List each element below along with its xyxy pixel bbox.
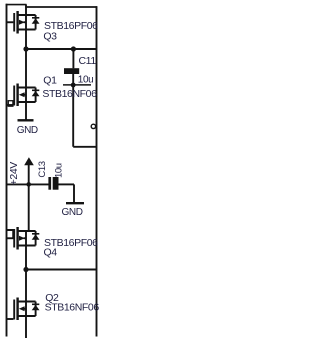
wire GND stem right (73, 184, 75, 203)
svg-text:GND: GND (17, 125, 38, 136)
svg-text:Q4: Q4 (44, 247, 58, 259)
transistor Q4 (7, 227, 40, 250)
wire right vertical (96, 6, 98, 336)
ground symbol right bar (66, 202, 84, 204)
Q1 gate connection box (8, 101, 13, 107)
wire C11 to right vertical horizontal (73, 146, 96, 148)
wire C13 right lead (59, 183, 75, 185)
junction node at Q3 output (23, 46, 28, 51)
power port +24V arrow (24, 157, 34, 232)
svg-text:+24V: +24V (8, 162, 20, 186)
Q4 gate connection jog wire (7, 230, 13, 239)
wire C13 left lead (7, 183, 49, 185)
junction node at bottom bridge output (23, 267, 28, 272)
wire output node horizontal (26, 48, 97, 50)
capacitor C13 right plate (53, 177, 59, 190)
svg-text:STB16NF06: STB16NF06 (42, 88, 97, 100)
wire C11 bottom lead (72, 74, 74, 147)
junction node at C11 top (71, 46, 76, 51)
junction node at C11 negative plate (71, 83, 76, 88)
junction node at C13 +24V (26, 182, 31, 187)
svg-text:C11: C11 (79, 55, 97, 67)
wire C11 top lead (72, 49, 74, 68)
svg-text:Q1: Q1 (43, 75, 57, 87)
wire top horizontal right segment (25, 6, 97, 8)
wire top horizontal left segment (6, 4, 27, 6)
wire bottom bridge output horizontal (26, 269, 97, 271)
capacitor C11 negative plate (63, 84, 91, 86)
svg-text:Q3: Q3 (43, 30, 57, 42)
transistor Q2 (7, 298, 40, 321)
svg-text:10u: 10u (78, 74, 94, 85)
capacitor C11 positive plate (64, 68, 79, 74)
svg-text:GND: GND (62, 207, 83, 218)
wire Q4-Q2 chain vertical (25, 231, 27, 338)
capacitor C13 left plate (48, 177, 51, 190)
svg-text:10u: 10u (54, 163, 65, 178)
wire Q3-Q1 chain vertical (25, 5, 27, 120)
svg-text:C13: C13 (37, 161, 48, 177)
svg-text:STB16NF06: STB16NF06 (45, 301, 100, 313)
wire left vertical rail (6, 4, 8, 337)
ground symbol left bar under Q1 (18, 119, 34, 121)
transistor Q3 (7, 11, 40, 34)
connector circle on right vertical (91, 124, 95, 128)
transistor Q1 (7, 84, 40, 107)
